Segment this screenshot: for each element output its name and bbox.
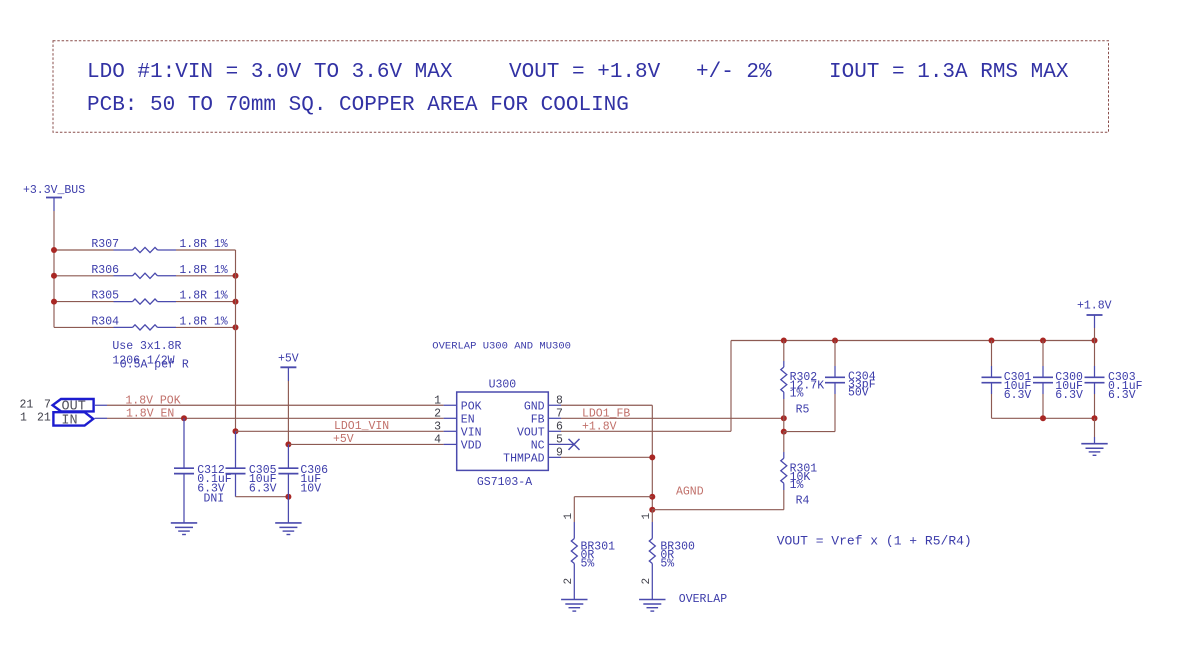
svg-text:10V: 10V (300, 483, 321, 496)
wire AGND to R301 bottom (652, 509, 784, 511)
svg-text:1.8R 1%: 1.8R 1% (179, 290, 227, 303)
op-amp U300 body (457, 392, 549, 470)
svg-text:VIN: VIN (461, 427, 482, 440)
capacitor C305 (226, 431, 277, 496)
junction right bus at R304 (233, 324, 239, 330)
svg-text:2: 2 (641, 578, 653, 585)
capacitor C312 (174, 418, 232, 523)
junction divider mid at C304 return (781, 429, 787, 435)
resistor R306 (91, 264, 227, 279)
junction right bus at R305 (233, 299, 239, 305)
junction 1.8V EN at C312 (181, 415, 187, 421)
svg-text:GND: GND (524, 400, 545, 413)
wire R307 left segment (54, 249, 114, 251)
svg-text:+/- 2%: +/- 2% (696, 61, 772, 84)
pin 3 VIN (434, 421, 481, 440)
net label 1.8V EN (126, 408, 174, 421)
note OVERLAP U300 AND MU300 (432, 341, 571, 353)
ground for BR301 (561, 600, 587, 612)
pin 2 EN (434, 408, 475, 427)
junction top rail at C301 (989, 338, 995, 344)
junction top rail at R302 (781, 338, 787, 344)
net label +1.8V (582, 420, 617, 433)
svg-text:6.3V: 6.3V (1004, 389, 1032, 402)
resistor R307 (91, 238, 227, 253)
title box (dotted border) (53, 41, 1109, 132)
svg-text:6.3V: 6.3V (249, 483, 277, 496)
svg-text:1.8R 1%: 1.8R 1% (179, 238, 227, 251)
svg-text:VOUT = Vref x (1 + R5/R4): VOUT = Vref x (1 + R5/R4) (777, 534, 972, 549)
svg-text:21: 21 (37, 412, 51, 425)
svg-text:VDD: VDD (461, 440, 482, 453)
svg-text:GS7103-A: GS7103-A (477, 476, 532, 489)
refdes U300 (489, 379, 517, 392)
svg-text:1: 1 (641, 513, 653, 520)
net label LDO1_VIN (334, 420, 389, 433)
resistor BR300 (641, 513, 695, 600)
junction right bus at R306 (233, 273, 239, 279)
junction C306 lead at C305 wire (285, 494, 291, 500)
note Use 3x1.8R (112, 340, 181, 353)
svg-text:6.3V: 6.3V (1055, 389, 1083, 402)
svg-text:1: 1 (434, 394, 441, 407)
pin 1 POK (434, 394, 482, 413)
svg-text:R306: R306 (91, 264, 119, 277)
svg-text:5: 5 (556, 434, 563, 447)
junction top rail at C303 (1092, 338, 1098, 344)
junction THMPAD at AGND rail (649, 454, 655, 460)
resistor R304 (91, 315, 227, 330)
wire R307 right segment (176, 249, 236, 251)
pin 7 FB (531, 408, 563, 427)
title text line 1 (87, 61, 1069, 84)
power symbol +1.8V (1077, 300, 1112, 329)
junction AGND at BR300 branch (649, 507, 655, 513)
svg-text:5%: 5% (660, 558, 674, 571)
svg-text:50V: 50V (848, 386, 869, 399)
wire R304 left segment (54, 326, 114, 328)
wire ground lead (1094, 418, 1096, 443)
wire R304 right segment (176, 326, 236, 328)
svg-text:U300: U300 (489, 379, 517, 392)
svg-text:R304: R304 (91, 315, 119, 328)
wire THMPAD to AGND rail (561, 456, 652, 458)
ground for C305 C306 (275, 523, 301, 535)
svg-text:POK: POK (461, 400, 482, 413)
pin 8 GND (524, 394, 563, 413)
svg-text:6.3V: 6.3V (1108, 389, 1136, 402)
power symbol +5V (278, 353, 299, 382)
port OUT (1.8V POK) (53, 399, 94, 415)
port IN (1.8V EN) (53, 412, 93, 429)
note 0.5A per R (120, 359, 189, 372)
svg-text:1: 1 (20, 412, 27, 425)
wire net 1.8V POK (95, 404, 444, 406)
wire net LDO1_VIN (236, 430, 444, 432)
svg-text:R305: R305 (91, 290, 119, 303)
junction LDO1_VIN at C305 (233, 428, 239, 434)
svg-text:OVERLAP U300 AND MU300: OVERLAP U300 AND MU300 (432, 341, 571, 353)
wire net 1.8V EN (95, 417, 444, 419)
wire LDO1_VIN vertical bus (235, 250, 237, 431)
svg-text:+1.8V: +1.8V (1077, 300, 1112, 313)
wire +3.3V_BUS left bus (53, 211, 55, 327)
svg-text:1: 1 (563, 513, 575, 520)
capacitor C304 (825, 341, 876, 432)
svg-text:+5V: +5V (333, 433, 354, 446)
title text line 2 (87, 94, 629, 117)
svg-text:OVERLAP: OVERLAP (679, 593, 727, 606)
svg-text:+3.3V_BUS: +3.3V_BUS (23, 184, 85, 197)
svg-text:LDO #1:VIN = 3.0V TO 3.6V MAX: LDO #1:VIN = 3.0V TO 3.6V MAX (87, 61, 453, 84)
svg-text:LDO1_FB: LDO1_FB (582, 408, 630, 421)
net label LDO1_FB (582, 408, 630, 421)
wire BR301 top lead (573, 497, 575, 522)
wire C304 return to divider (784, 431, 835, 433)
capacitor C303 (1085, 341, 1143, 419)
junction +3.3V_BUS at R306 (51, 273, 57, 279)
svg-text:2: 2 (434, 408, 441, 421)
junction top rail at C300 (1040, 338, 1046, 344)
capacitor C301 (982, 341, 1032, 419)
resistor R305 (91, 290, 227, 305)
capacitor C300 (1033, 341, 1083, 419)
junction AGND at BR301 branch (649, 494, 655, 500)
svg-text:VOUT: VOUT (517, 427, 545, 440)
svg-text:EN: EN (461, 414, 475, 427)
net label +5V (333, 433, 354, 446)
svg-text:FB: FB (531, 414, 545, 427)
ground for BR300 (639, 600, 665, 612)
svg-text:7: 7 (44, 399, 51, 412)
wire R306 left segment (54, 275, 114, 277)
capacitor C306 (278, 444, 328, 523)
wire net LDO1_FB (561, 417, 784, 419)
value GS7103-A (477, 476, 532, 489)
net label 1.8V POK (125, 395, 180, 408)
svg-text:DNI: DNI (204, 493, 225, 506)
wire R305 left segment (54, 301, 114, 303)
svg-text:5%: 5% (581, 558, 595, 571)
wire C305 to C306 ground (236, 496, 289, 498)
svg-text:+1.8V: +1.8V (582, 420, 617, 433)
junction LDO1_FB at divider (781, 415, 787, 421)
wire +1.8V power to rail (1094, 328, 1096, 341)
wire net +1.8V from VOUT (561, 341, 731, 432)
svg-text:NC: NC (531, 440, 545, 453)
svg-text:2: 2 (563, 578, 575, 585)
svg-text:+5V: +5V (278, 353, 299, 366)
junction bottom rail at ground (1092, 415, 1098, 421)
svg-text:1.8R 1%: 1.8R 1% (179, 264, 227, 277)
wire R301 bottom to AGND (783, 490, 785, 510)
svg-text:AGND: AGND (676, 486, 704, 499)
svg-text:3: 3 (434, 421, 441, 434)
junction +3.3V_BUS at R307 (51, 247, 57, 253)
svg-text:4: 4 (434, 434, 441, 447)
wire R302 top lead (783, 341, 785, 362)
note OVERLAP (679, 593, 727, 606)
wire R306 right segment (176, 275, 236, 277)
svg-text:21: 21 (20, 399, 34, 412)
svg-text:IN: IN (61, 414, 77, 429)
svg-text:R5: R5 (796, 404, 810, 417)
resistor R301 (R4) (781, 452, 818, 508)
svg-text:0.5A per R: 0.5A per R (120, 359, 189, 372)
svg-text:1.8V EN: 1.8V EN (126, 408, 174, 421)
net label AGND (676, 486, 704, 499)
wire BR300 top lead (651, 510, 653, 522)
power symbol +3.3V_BUS (23, 184, 85, 211)
wire +1.8V top rail (731, 340, 1095, 342)
svg-text:VOUT = +1.8V: VOUT = +1.8V (509, 61, 661, 84)
wire net +5V to VDD (288, 443, 443, 445)
junction +3.3V_BUS at R305 (51, 299, 57, 305)
junction +5V at VDD (285, 441, 291, 447)
wire R302 bottom to FB node (783, 399, 785, 432)
wire GND pin to AGND rail (561, 405, 652, 509)
svg-text:PCB: 50 TO 70mm SQ. COPPER ARE: PCB: 50 TO 70mm SQ. COPPER AREA FOR COOL… (87, 94, 629, 117)
pin 9 THMPAD (503, 447, 563, 466)
ground for C312 (171, 523, 197, 535)
junction bottom rail at C300 (1040, 415, 1046, 421)
svg-text:1.8R 1%: 1.8R 1% (179, 315, 227, 328)
wire FB node to R301 (783, 432, 785, 452)
svg-text:R4: R4 (796, 495, 810, 508)
wire output caps bottom rail (992, 417, 1095, 419)
pin numbers 21 7 (20, 399, 51, 412)
svg-text:LDO1_VIN: LDO1_VIN (334, 420, 389, 433)
wire +5V vertical (287, 381, 289, 444)
wire R305 right segment (176, 301, 236, 303)
junction top rail at C304 (832, 338, 838, 344)
pin numbers 1 21 (20, 412, 51, 425)
wire AGND to BR301 (574, 496, 652, 498)
svg-text:R307: R307 (91, 238, 119, 251)
resistor BR301 (563, 513, 615, 600)
pin 4 VDD (434, 434, 482, 453)
note VOUT formula (777, 534, 972, 549)
ground for output caps (1081, 444, 1107, 456)
svg-text:IOUT = 1.3A RMS MAX: IOUT = 1.3A RMS MAX (829, 61, 1069, 84)
svg-text:Use 3x1.8R: Use 3x1.8R (112, 340, 181, 353)
pin 5 NC (531, 434, 580, 453)
svg-text:1.8V POK: 1.8V POK (125, 395, 180, 408)
svg-text:1%: 1% (790, 479, 804, 492)
svg-text:THMPAD: THMPAD (503, 453, 545, 466)
resistor R302 (R5) (781, 361, 824, 417)
note 1206 1/2W (112, 355, 174, 368)
svg-text:1%: 1% (790, 388, 804, 401)
pin 6 VOUT (517, 421, 563, 440)
